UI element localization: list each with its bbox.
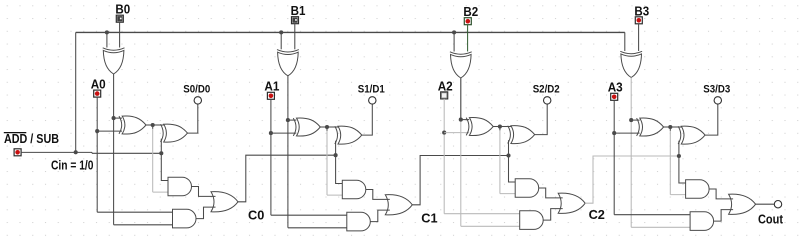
wire stub B-line to XOR1 top input xyxy=(461,119,469,121)
wire B-line corner into AND2 bottom input xyxy=(631,226,691,228)
wire XOR1 output to node xyxy=(320,126,327,128)
and gate A02 (carry term 2) xyxy=(173,209,197,228)
svg-text:C1: C1 xyxy=(421,212,437,226)
svg-text:S2/D2: S2/D2 xyxy=(533,84,560,96)
wire A1 line down xyxy=(270,99,272,215)
output pin S3/D3 xyxy=(714,97,721,104)
wire XOR1 out drop to AND1 (undefined grey) xyxy=(669,127,671,131)
wire xor output B-line down xyxy=(630,78,632,228)
wire AND1 out to OR top input xyxy=(192,187,216,197)
wire stub A-line to XOR1 bottom input xyxy=(97,130,122,132)
wire XOR2 output to S riser xyxy=(535,104,548,135)
wire XOR1 out drop to AND1 (undefined grey) xyxy=(499,127,501,131)
wire xor output B-line down xyxy=(460,78,462,226)
output pin S0/D0 xyxy=(194,97,201,104)
or gate O2 (carry out) xyxy=(558,193,585,213)
svg-text:ADD / SUB: ADD / SUB xyxy=(4,132,59,146)
output pin S2/D2 xyxy=(544,97,551,104)
wire A-line corner into AND2 top input xyxy=(97,211,173,213)
wire AND2 out to OR bottom input xyxy=(714,210,734,222)
node A-line to XOR1 xyxy=(95,129,99,133)
and gate A21 (carry term 1) xyxy=(515,179,539,198)
wire stub B-line to XOR1 top input xyxy=(114,117,122,119)
wire carry C0 to next stage xyxy=(238,155,336,202)
wire A0 line down xyxy=(96,97,98,212)
wire AND2 out to OR bottom input xyxy=(543,209,563,221)
or gate O0 (carry out) xyxy=(211,192,238,212)
svg-text:Cout: Cout xyxy=(758,212,784,226)
svg-text:B3: B3 xyxy=(634,4,649,18)
wire AND2 out to OR bottom input xyxy=(196,207,216,219)
wire carry riser to XOR2 bottom input xyxy=(335,141,337,156)
node XOR1 output xyxy=(668,125,672,129)
wire xor output B-line down xyxy=(287,76,289,228)
wire stub B-line to XOR1 top input xyxy=(288,119,296,121)
input pin A1 xyxy=(267,92,274,99)
node carry-in junction xyxy=(677,154,681,158)
node bus junction at riser xyxy=(74,150,78,154)
wire carry C1 to next stage xyxy=(412,156,508,205)
svg-text:Cin = 1/0: Cin = 1/0 xyxy=(51,158,94,172)
input pin B2 xyxy=(464,18,471,25)
wire stub A-line to XOR1 bottom input xyxy=(271,132,296,134)
wire stub B-line to XOR1 top input xyxy=(631,119,639,121)
output pin Cout xyxy=(774,201,781,208)
svg-text:C0: C0 xyxy=(248,209,264,223)
svg-text:B2: B2 xyxy=(463,5,478,19)
wire bus stub to xor input xyxy=(453,32,455,51)
wire XOR2 output to S riser xyxy=(188,104,198,134)
node A-line to XOR1 xyxy=(442,131,446,135)
wire carry drop to AND1 top input xyxy=(161,153,169,180)
node XOR1 output xyxy=(325,125,329,129)
wire A-line corner into AND2 top input xyxy=(271,214,348,216)
and gate A22 (carry term 2) xyxy=(520,211,543,230)
wire XOR2 output to S riser xyxy=(362,104,373,136)
input pin ADD/SUB xyxy=(14,149,21,156)
wire bus corner down to xor input xyxy=(624,32,626,51)
node carry-in junction xyxy=(334,153,338,157)
wire carry drop to AND1 top input xyxy=(679,156,687,183)
wire XOR1 out to XOR2 top input xyxy=(327,126,340,128)
svg-text:C2: C2 xyxy=(589,208,605,222)
wire AND1 out to OR top input xyxy=(709,189,733,199)
wire stub A-line to XOR1 bottom input xyxy=(444,132,469,134)
wire AND1 out to OR top input xyxy=(539,188,563,198)
xor gate X02 (sum) xyxy=(161,124,164,142)
and gate A12 (carry term 2) xyxy=(347,212,371,231)
wire carry C2 to next stage xyxy=(585,156,679,203)
svg-text:A3: A3 xyxy=(608,81,623,95)
svg-text:S3/D3: S3/D3 xyxy=(703,84,730,96)
xor gate U2A (B2 invert control), vertical xyxy=(450,52,472,54)
node B-line to XOR1 xyxy=(112,116,116,120)
wire B-line corner into AND2 bottom input xyxy=(461,225,521,227)
input pin A3 xyxy=(611,93,618,100)
wire OR out to Cout pin xyxy=(756,203,775,205)
wire xor output B-line down xyxy=(113,74,115,225)
xor gate X11 (A xor B) xyxy=(293,118,296,136)
xor gate U3A (B3 invert control), vertical xyxy=(620,51,642,53)
wire B-line corner into AND2 bottom input xyxy=(288,227,348,229)
and gate A01 (carry term 1) xyxy=(168,177,192,196)
wire carry riser to XOR2 bottom input xyxy=(508,140,510,155)
svg-text:B1: B1 xyxy=(291,4,306,18)
wire XOR1 output to node xyxy=(146,124,153,126)
wire A3 line down xyxy=(613,100,615,214)
node B-line to XOR1 xyxy=(286,118,290,122)
output pin S1/D1 xyxy=(369,97,376,104)
or gate O3 (carry out) xyxy=(729,194,756,214)
svg-text:A1: A1 xyxy=(264,80,279,94)
wire B-line corner into AND2 bottom input xyxy=(114,224,174,226)
input pin B3 xyxy=(635,17,642,24)
node B-line to XOR1 xyxy=(459,118,463,122)
xor gate U1A (B1 invert control), vertical xyxy=(277,50,299,52)
wire A-line corner into AND2 top input xyxy=(444,213,521,215)
wire control bus (top horizontal) xyxy=(76,31,625,33)
wire AND1 out to OR top input xyxy=(366,190,390,200)
node carry-in junction xyxy=(159,151,163,155)
node bus junction xyxy=(105,30,109,34)
svg-text:S0/D0: S0/D0 xyxy=(183,84,210,96)
wire AND2 out to OR bottom input xyxy=(370,210,390,222)
wire B2 pin to xor xyxy=(467,25,469,52)
wire XOR1 out drop to AND1 (undefined grey) xyxy=(152,125,154,129)
wire XOR1 out to XOR2 top input xyxy=(153,124,166,126)
node XOR1 output xyxy=(498,124,502,128)
wire XOR1 out drop to AND1 (undefined grey) xyxy=(326,127,328,131)
wire XOR1 output to node xyxy=(493,126,500,128)
wire stub A-line to XOR1 bottom input xyxy=(614,132,639,134)
wire B1 pin to xor xyxy=(294,24,296,50)
wire carry riser to XOR2 bottom input xyxy=(160,139,162,154)
input pin B1 xyxy=(292,17,299,24)
node A-line to XOR1 xyxy=(612,131,616,135)
input pin B0 xyxy=(116,15,123,22)
xor gate X22 (sum) xyxy=(508,126,511,144)
and gate A31 (carry term 1) xyxy=(686,180,710,199)
svg-text:B0: B0 xyxy=(115,3,130,17)
wire ADD/SUB to carry-in line xyxy=(21,151,92,153)
node carry-in junction xyxy=(506,153,510,157)
and gate A32 (carry term 2) xyxy=(690,212,713,231)
xor gate X31 (A xor B) xyxy=(637,118,640,136)
wire bus stub to xor input xyxy=(106,32,108,47)
wire XOR2 output to S riser xyxy=(705,104,718,136)
xor gate X32 (sum) xyxy=(678,126,681,144)
xor gate X21 (A xor B) xyxy=(466,118,469,136)
xor gate X01 (A xor B) xyxy=(119,116,122,134)
svg-text:S1/D1: S1/D1 xyxy=(358,84,385,96)
input pin A0 xyxy=(94,90,101,97)
wire B0 pin to xor xyxy=(119,22,121,47)
xor gate X12 (sum) xyxy=(335,126,338,144)
wire A2 line down xyxy=(443,99,445,214)
node XOR1 output xyxy=(151,123,155,127)
node A-line to XOR1 xyxy=(269,131,273,135)
xor gate U0A (B0 invert control), vertical xyxy=(103,48,125,50)
node B-line to XOR1 xyxy=(629,118,633,122)
wire carry riser to XOR2 bottom input xyxy=(678,141,680,156)
wire bus stub to xor input xyxy=(280,32,282,49)
wire XOR1 out to XOR2 top input xyxy=(500,126,513,128)
wire riser to control bus xyxy=(75,32,77,152)
wire XOR1 out to XOR2 top input xyxy=(670,126,683,128)
wire carry drop to AND1 top input xyxy=(509,156,517,183)
wire B3 pin to xor xyxy=(638,24,640,51)
wire A-line corner into AND2 top input xyxy=(614,214,691,216)
input pin A2 xyxy=(441,92,448,99)
and gate A11 (carry term 1) xyxy=(342,180,366,199)
node bus junction xyxy=(279,30,283,34)
svg-text:A2: A2 xyxy=(438,79,453,93)
wire XOR1 output to node xyxy=(664,126,671,128)
svg-text:A0: A0 xyxy=(91,78,106,92)
wire carry drop to AND1 top input xyxy=(336,155,344,183)
or gate O1 (carry out) xyxy=(385,195,412,215)
node bus junction xyxy=(452,30,456,34)
